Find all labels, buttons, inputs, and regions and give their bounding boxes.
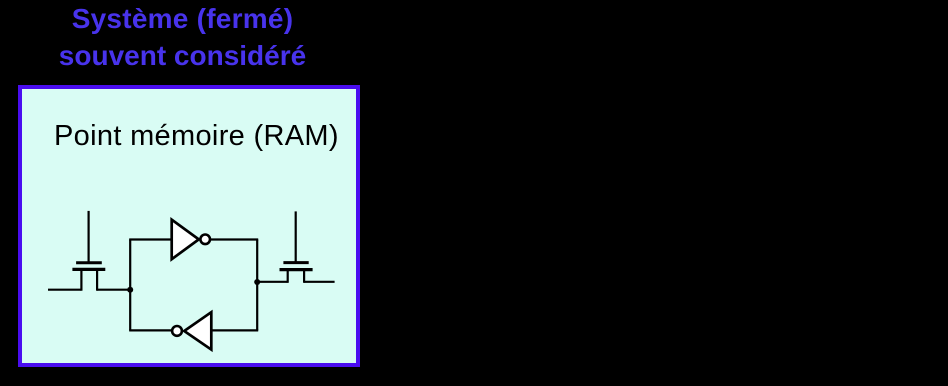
wire: right bit line: [304, 281, 335, 283]
label: Point mémoire (RAM): [54, 118, 339, 154]
node B junction dot: [254, 279, 260, 285]
wire: left bit line: [48, 289, 81, 291]
wire: right vertical to inverter U2 input: [211, 329, 258, 331]
wire: node B to Q2 source: [256, 281, 288, 283]
wire: right vertical of latch loop: [256, 240, 258, 331]
wire: U2 output to left vertical: [129, 329, 172, 331]
system boundary box: [18, 85, 360, 367]
inverter U1 (top, points right): [172, 220, 210, 260]
title: Système (fermé) souvent considéré: [0, 0, 365, 74]
wire: U1 output to right vertical: [210, 238, 258, 240]
transistor Q1 (left access MOSFET): [72, 211, 105, 291]
wire: left vertical of latch loop: [129, 240, 131, 331]
wire: Q1 drain to node A: [97, 289, 131, 291]
node A junction dot: [127, 287, 133, 293]
inverter U2 (bottom, points left): [172, 312, 211, 349]
transistor Q2 (right access MOSFET): [280, 211, 313, 282]
wire: node A to inverter U1 input: [129, 238, 170, 240]
